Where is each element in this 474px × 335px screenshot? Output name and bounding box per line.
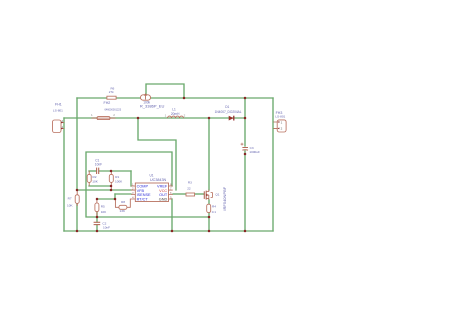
svg-text:R3: R3 (188, 181, 192, 185)
svg-text:UC3843N: UC3843N (150, 178, 167, 182)
inductor L1 (168, 116, 184, 118)
connector FH1 (53, 120, 65, 133)
svg-text:D1: D1 (225, 105, 229, 109)
wire source to R4 (208, 200, 210, 204)
wire R3 to gate (195, 193, 204, 195)
wire VREF route B (86, 152, 209, 217)
wire D1 output vertical to C3 (244, 98, 246, 146)
svg-text:Q1: Q1 (215, 192, 219, 196)
node rail C2 (96, 230, 99, 233)
svg-text:IRF540NPBF: IRF540NPBF (222, 186, 227, 210)
svg-text:FH2: FH2 (104, 101, 111, 105)
svg-text:2: 2 (184, 114, 186, 118)
node drain tap (208, 117, 211, 120)
node C3 bottom (244, 153, 247, 156)
svg-text:R4: R4 (212, 205, 216, 209)
node rail R7 (76, 230, 79, 233)
resistor R1 (109, 171, 113, 190)
wire ISENSE down (114, 194, 116, 199)
trimmer R_3386P_EU (141, 94, 151, 100)
svg-text:R7: R7 (68, 197, 72, 201)
wire R7 lower to rail (76, 204, 78, 231)
svg-text:1N4007_DO204AL: 1N4007_DO204AL (215, 110, 242, 114)
svg-text:10K: 10K (92, 179, 98, 183)
wire GND down (171, 199, 173, 231)
svg-text:RT/CT: RT/CT (137, 197, 149, 201)
svg-text:646000001223: 646000001223 (105, 109, 122, 112)
wire VCC route A (138, 118, 176, 190)
node VCC tap (137, 117, 140, 120)
svg-text:10nF: 10nF (103, 226, 110, 230)
node rail GND (171, 230, 174, 233)
wire COMP net C1 row (89, 170, 96, 172)
svg-text:20mH: 20mH (171, 112, 180, 116)
IC U1 UC3843N (131, 183, 173, 202)
resistor R8 (115, 199, 135, 209)
wire COMP vertical (130, 171, 132, 186)
wire VFB row (77, 189, 131, 191)
node R5-C2 (96, 216, 99, 219)
svg-text:FH1: FH1 (55, 102, 62, 106)
wire top output net W1 (77, 97, 273, 99)
fuse FH2 (92, 117, 116, 120)
capacitor C3 polarized (241, 143, 248, 150)
wire ISENSE row (115, 193, 131, 195)
wire OUT to R3 (173, 193, 186, 195)
svg-text:0.1: 0.1 (212, 210, 217, 214)
svg-text:LS-801: LS-801 (53, 108, 63, 112)
wire main input net W2 (64, 117, 245, 119)
resistor R3 (186, 193, 195, 196)
wire trimmer wiper loop (146, 84, 184, 98)
svg-text:U1: U1 (150, 174, 154, 178)
node rail C3 (244, 230, 247, 233)
svg-text:GND: GND (159, 197, 168, 201)
diode D1 (229, 116, 234, 121)
node trimmer wiper tie (183, 97, 186, 100)
capacitor C2 (94, 222, 101, 224)
node C1-R1 top (110, 170, 113, 173)
svg-text:10K: 10K (67, 204, 73, 208)
wire ground rail (64, 230, 273, 232)
wire R6 feedback vertical x77 (76, 98, 78, 190)
wire R2 bottom to R1 bottom (89, 185, 111, 187)
wire drain vertical (208, 118, 210, 190)
svg-text:13K: 13K (120, 209, 126, 213)
wire RT/CT row L3 (97, 198, 115, 200)
svg-text:1000uF: 1000uF (249, 150, 260, 154)
node output top (244, 97, 247, 100)
resistor R5 (95, 199, 99, 217)
svg-text:R8: R8 (121, 200, 125, 204)
wire R4 bottom to rail (208, 213, 210, 231)
svg-text:1: 1 (165, 114, 167, 118)
svg-text:1: 1 (91, 113, 93, 117)
node R4 bottom (208, 216, 211, 219)
wire FH3 vertical (272, 98, 274, 231)
svg-text:R5: R5 (101, 205, 105, 209)
svg-text:L1: L1 (172, 108, 176, 112)
resistor R4 (207, 204, 211, 213)
node R5 top (96, 198, 99, 201)
svg-text:22: 22 (187, 186, 191, 190)
node R1-R2 bottom (110, 185, 113, 188)
svg-text:100K: 100K (115, 179, 123, 183)
svg-text:27k: 27k (109, 90, 114, 94)
svg-text:10K: 10K (101, 210, 107, 214)
resistor R7 (75, 190, 79, 206)
svg-text:LS-801: LS-801 (275, 115, 285, 119)
connector FH3 (273, 120, 286, 132)
svg-text:C3: C3 (250, 146, 254, 150)
capacitor C1 (97, 168, 99, 174)
resistor R2 (87, 171, 91, 186)
node ISENSE-R8 (114, 198, 117, 201)
node VFB R1 (110, 189, 113, 192)
svg-text:R_3386P_EU: R_3386P_EU (140, 104, 165, 109)
node rail R4 (208, 230, 211, 233)
svg-text:2: 2 (113, 113, 115, 117)
pin numbers U1 (132, 182, 172, 199)
node VFB left (76, 189, 79, 192)
node D1 cathode (244, 117, 247, 120)
wire R5 to C2 to rail (96, 212, 98, 222)
wire FH1 vertical to ground rail (63, 118, 65, 231)
svg-text:10nF: 10nF (95, 162, 102, 166)
resistor R6 (107, 96, 116, 99)
wire C3 bottom to rail (244, 151, 246, 231)
transistor Q1 (204, 190, 213, 200)
